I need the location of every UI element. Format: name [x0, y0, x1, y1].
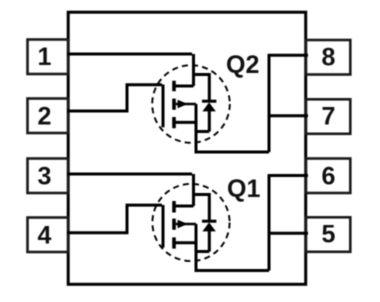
- svg-text:5: 5: [322, 221, 336, 249]
- svg-text:7: 7: [322, 103, 336, 131]
- wire pin8: [269, 54, 308, 57]
- svg-text:8: 8: [322, 43, 336, 71]
- wire pin2 to Q2 gate: [67, 85, 162, 111]
- pin 6 box: [306, 159, 350, 194]
- Q2 body line with arrow: [176, 103, 196, 106]
- Q1 drain-channel link: [174, 205, 194, 208]
- pin 2 box: [28, 99, 69, 134]
- Q2 drain-channel link: [174, 85, 194, 88]
- pin 4 box: [28, 218, 69, 253]
- svg-text:6: 6: [322, 162, 336, 190]
- Q1 dashed circle: [152, 184, 229, 261]
- svg-text:3: 3: [38, 162, 52, 190]
- wire pin4 to Q1 gate: [67, 205, 162, 233]
- pin 1 box: [28, 40, 69, 75]
- Q1 source-channel link: [174, 241, 196, 244]
- Q1 gate bar: [162, 205, 165, 248]
- package outline U1 body: [68, 12, 306, 284]
- pin 5 box: [306, 217, 350, 252]
- Q2 dashed circle: [152, 65, 230, 143]
- svg-text:4: 4: [38, 221, 52, 249]
- pin 7 box: [306, 99, 350, 134]
- Q2 drain lead: [192, 54, 195, 86]
- Q2 channel segments: [172, 81, 176, 129]
- pin 8 box: [306, 40, 350, 75]
- svg-text:1: 1: [38, 43, 52, 71]
- Q1 channel segments: [172, 201, 176, 249]
- transistor Q2: [152, 51, 269, 152]
- wire pin3 to Q1 drain: [67, 173, 192, 176]
- Q1 body diode: [194, 195, 210, 223]
- wire pin6: [269, 174, 308, 177]
- svg-text:Q2: Q2: [226, 51, 259, 79]
- Q1 source lead: [196, 224, 269, 271]
- node bar Q1 sources to pins 5,6: [268, 174, 271, 270]
- pin 3 box: [28, 159, 69, 194]
- Q1 drain lead: [192, 174, 195, 206]
- Q2 source lead: [196, 104, 269, 152]
- node bar Q2 sources to pins 7,8: [268, 54, 271, 152]
- wire pin7: [269, 114, 308, 117]
- Q2 gate bar: [162, 85, 165, 128]
- svg-text:2: 2: [38, 102, 52, 130]
- Q1 body line with arrow: [176, 223, 196, 226]
- wire pin1 to Q2 drain: [67, 53, 192, 56]
- transistor Q1: [152, 174, 269, 271]
- svg-text:Q1: Q1: [227, 175, 260, 203]
- Q2 source-channel link: [174, 121, 196, 124]
- Q2 body diode: [194, 75, 210, 103]
- wire pin5: [269, 232, 308, 235]
